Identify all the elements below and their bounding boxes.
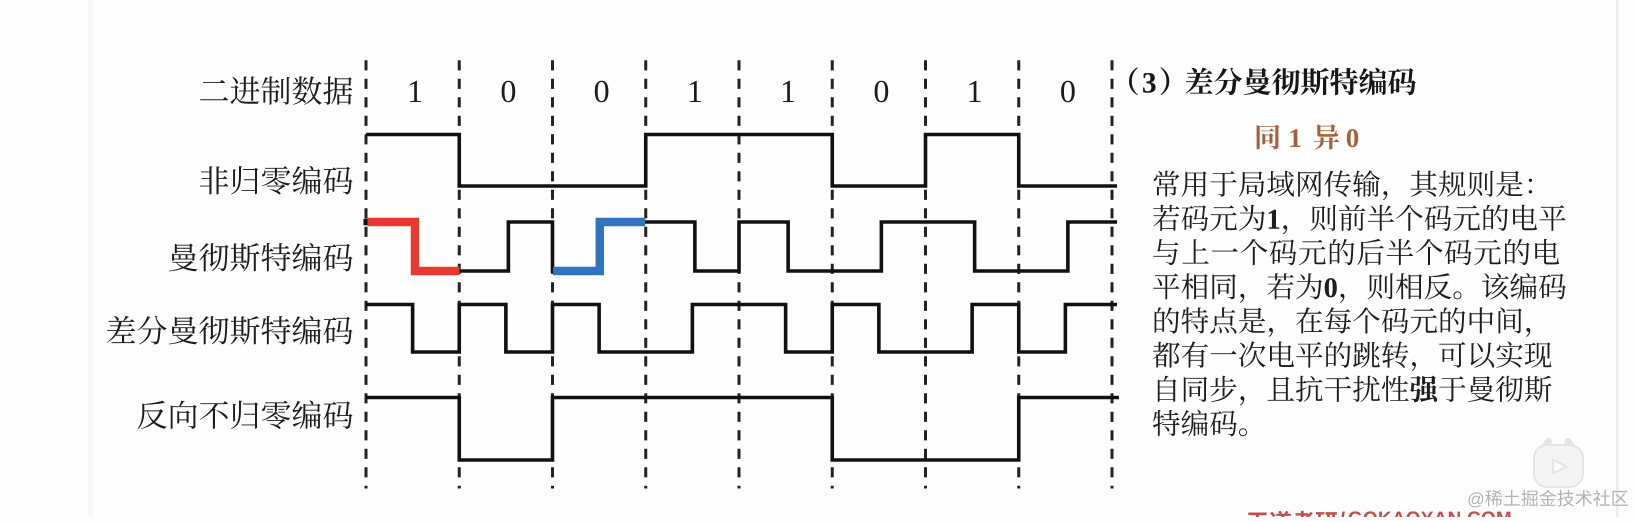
paragraph line 8 bbox=[1153, 410, 1247, 437]
gridline dashed bit-boundary 8 bbox=[1017, 60, 1020, 488]
waveform NRZI (inverted NRZ) bbox=[366, 398, 1119, 461]
Manchester blue highlight segment bit0 bbox=[553, 222, 645, 271]
orange rule heading same-1 differ-0 bbox=[1257, 124, 1359, 149]
binary digit 1 cell 5 bbox=[783, 81, 794, 102]
faint right vertical line bbox=[1616, 0, 1619, 517]
paragraph line 4 bbox=[1153, 273, 1566, 303]
heading (3) differential Manchester encoding bbox=[1129, 67, 1416, 95]
row label inverted NRZ encoding 反向不归零编码 bbox=[138, 400, 353, 429]
row label NRZ encoding 非归零编码 bbox=[200, 166, 353, 195]
waveform NRZ (non-return-to-zero) bbox=[366, 135, 1117, 187]
paragraph line 1 bbox=[1154, 170, 1533, 200]
faint left band line bbox=[88, 0, 93, 517]
binary digit 0 cell 3 bbox=[595, 81, 609, 103]
paragraph line 7 bbox=[1158, 376, 1552, 406]
binary digit 1 cell 7 bbox=[969, 81, 980, 102]
binary digit 0 cell 6 bbox=[875, 81, 889, 103]
row label binary data 二进制数据 bbox=[200, 76, 352, 104]
bottom orange partial watermark text bbox=[1247, 511, 1511, 522]
gridline dashed bit-boundary 3 bbox=[551, 60, 554, 488]
watermark juejin community bbox=[1468, 490, 1628, 508]
gridline dashed bit-boundary 2 bbox=[458, 60, 461, 488]
Manchester red highlight segment bit1 bbox=[368, 222, 460, 271]
binary digit 0 cell 2 bbox=[502, 81, 516, 103]
gridline dashed bit-boundary 5 bbox=[738, 60, 741, 488]
paragraph line 6 bbox=[1153, 341, 1552, 371]
gridline dashed bit-boundary 1 bbox=[365, 60, 368, 488]
gridline dashed bit-boundary 6 bbox=[831, 60, 834, 488]
binary digit 0 cell 8 bbox=[1061, 81, 1075, 103]
gridline dashed bit-boundary 7 bbox=[924, 60, 927, 488]
paragraph line 2 bbox=[1153, 205, 1566, 235]
play icon bilibili tv logo bbox=[1534, 442, 1583, 488]
gridline dashed bit-boundary 9 bbox=[1111, 60, 1114, 488]
paragraph line 3 bbox=[1153, 239, 1559, 265]
waveform Manchester bbox=[366, 222, 1117, 271]
binary digit 1 cell 4 bbox=[690, 81, 701, 102]
gridline dashed bit-boundary 4 bbox=[644, 60, 647, 488]
row label Manchester encoding 曼彻斯特编码 bbox=[169, 243, 353, 272]
paragraph line 5 bbox=[1155, 307, 1531, 337]
binary digit 1 cell 1 bbox=[410, 81, 421, 102]
waveform differential Manchester bbox=[366, 305, 1117, 353]
row label differential Manchester encoding 差分曼彻斯特编码 bbox=[107, 316, 353, 345]
black tick at start of Manchester line bbox=[364, 219, 371, 226]
